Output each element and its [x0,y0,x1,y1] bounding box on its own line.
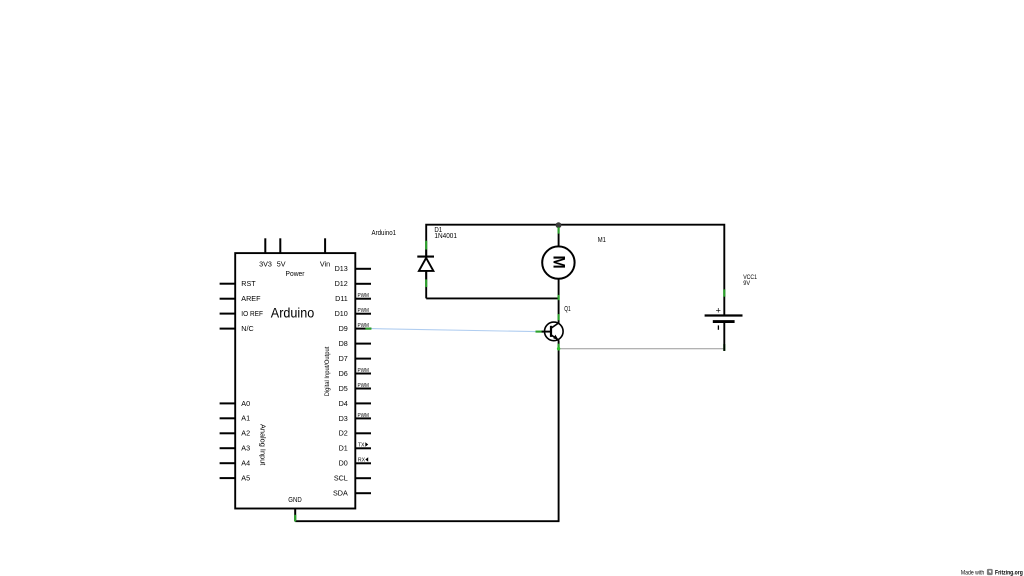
green junction emitter/gray wire [557,347,560,350]
Analog Input label (rotated) [258,424,265,465]
footer Made with Fritzing.org [961,569,1023,576]
label Arduino1 [372,230,397,237]
green terminal diode bottom [425,279,427,287]
svg-text:D1: D1 [339,444,348,453]
green terminal D9 [365,328,371,330]
svg-text:TX: TX [358,442,365,448]
wire emitter to battery - (thin gray) [559,348,725,350]
svg-text:D5: D5 [339,384,348,393]
wire bottom (diode bottom to motor bottom) [426,297,558,299]
pin D5 [339,383,371,393]
svg-text:Analog Input: Analog Input [258,424,265,465]
svg-text:D2: D2 [339,429,348,438]
svg-text:A0: A0 [241,399,250,408]
wire motor branch vertical [558,225,560,247]
label D1 [434,227,442,234]
pin A1 [220,414,250,423]
pin Vin [320,238,330,268]
green terminal motor bottom [558,295,560,300]
pin D3 [339,413,371,423]
svg-text:PWM: PWM [358,383,369,389]
green terminal motor top [558,227,560,233]
green terminal GND [294,515,296,522]
wire top net (diode top to battery +) [426,225,724,316]
svg-text:D6: D6 [339,369,348,378]
svg-text:Arduino: Arduino [271,306,314,322]
value 1N4001 [434,233,457,240]
svg-text:D8: D8 [339,339,348,348]
pin SCL [334,474,371,483]
svg-text:D11: D11 [335,294,348,303]
green terminal base [536,331,544,333]
value 9V [743,280,750,287]
svg-text:RX: RX [358,457,366,463]
svg-text:+: + [716,306,721,316]
svg-text:IO REF: IO REF [241,309,263,318]
green terminal battery bottom [723,344,725,351]
pin IO REF [220,309,264,318]
svg-text:D9: D9 [339,324,348,333]
Arduino title text [271,306,314,322]
pin D1 [339,442,371,452]
Arduino U Arduino1 body [235,253,355,508]
pin A0 [220,399,250,408]
Power section label [286,271,306,278]
pin D0 [339,457,371,467]
svg-text:AREF: AREF [241,294,261,303]
pin 5V [277,238,286,268]
pin D8 [339,339,371,348]
svg-text:PWM: PWM [358,368,369,374]
pin D12 [335,279,371,288]
wire emitter down to GND rail [558,340,560,521]
svg-text:RST: RST [241,279,256,288]
wire D9 to base (blue) [372,329,536,332]
svg-text:D4: D4 [339,399,348,408]
pin RST [220,279,257,288]
svg-text:M: M [550,256,568,269]
svg-text:Q1: Q1 [564,306,571,313]
svg-text:A4: A4 [241,459,250,468]
pin D2 [339,429,371,438]
pin D9 [339,323,371,333]
svg-text:Power: Power [286,271,306,278]
wire GND rail horizontal [295,520,559,522]
svg-text:Digital Input/Output: Digital Input/Output [324,346,331,396]
svg-text:Made with: Made with [961,571,984,576]
transistor Q1 [542,322,564,341]
svg-text:5V: 5V [277,259,286,268]
pin GND [288,495,301,522]
svg-text:PWM: PWM [358,308,369,314]
pin A2 [220,429,250,438]
pin AREF [220,294,261,303]
wire motor to transistor collector [558,279,560,323]
pin D4 [339,399,371,408]
svg-text:D0: D0 [339,459,348,468]
svg-text:D10: D10 [335,309,348,318]
svg-text:D7: D7 [339,354,348,363]
pin A3 [220,444,250,453]
battery VCC1 [705,306,743,351]
pin D10 [335,308,371,318]
svg-text:SDA: SDA [333,489,348,498]
svg-text:GND: GND [288,495,301,504]
svg-text:1N4001: 1N4001 [434,233,457,240]
svg-text:D12: D12 [335,279,348,288]
diode D1 [417,250,434,280]
junction dot top net [556,222,562,228]
green terminal battery top [723,289,725,296]
svg-text:3V3: 3V3 [259,259,272,268]
label M1 [598,237,606,244]
motor M1 [542,246,574,278]
svg-text:PWM: PWM [358,413,369,419]
pin N/C [220,324,254,333]
pin D6 [339,368,371,378]
green terminal diode top [425,241,427,250]
svg-text:D13: D13 [335,264,348,273]
svg-text:D3: D3 [339,414,348,423]
svg-text:PWM: PWM [358,293,369,299]
pin 3V3 [259,238,272,268]
pin A4 [220,459,250,468]
svg-text:Arduino1: Arduino1 [372,230,397,237]
svg-text:SCL: SCL [334,474,348,483]
svg-text:A3: A3 [241,444,250,453]
svg-text:A1: A1 [241,414,250,423]
svg-text:Vin: Vin [320,259,330,268]
pin SDA [333,489,371,498]
label Q1 [564,306,571,313]
pin D7 [339,354,371,363]
green terminal collector [558,314,560,320]
pin A5 [220,474,250,483]
pin D13 [335,264,371,273]
Digital Input/Output label (rotated) [324,346,331,396]
green terminal emitter [558,344,560,351]
label VCC1 [743,274,757,281]
svg-text:9V: 9V [743,280,750,287]
svg-text:Fritzing.org: Fritzing.org [995,570,1023,576]
pin D11 [335,293,371,303]
svg-text:A5: A5 [241,474,250,483]
svg-text:M1: M1 [598,237,606,244]
svg-text:A2: A2 [241,429,250,438]
svg-text:N/C: N/C [241,324,253,333]
